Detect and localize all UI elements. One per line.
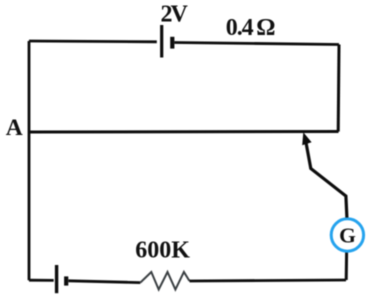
svg-text:A: A [6,115,23,141]
svg-text:G: G [339,224,356,248]
svg-text:0.4 Ω: 0.4 Ω [226,15,275,41]
svg-text:2V: 2V [161,2,189,28]
svg-text:600K: 600K [135,238,190,264]
